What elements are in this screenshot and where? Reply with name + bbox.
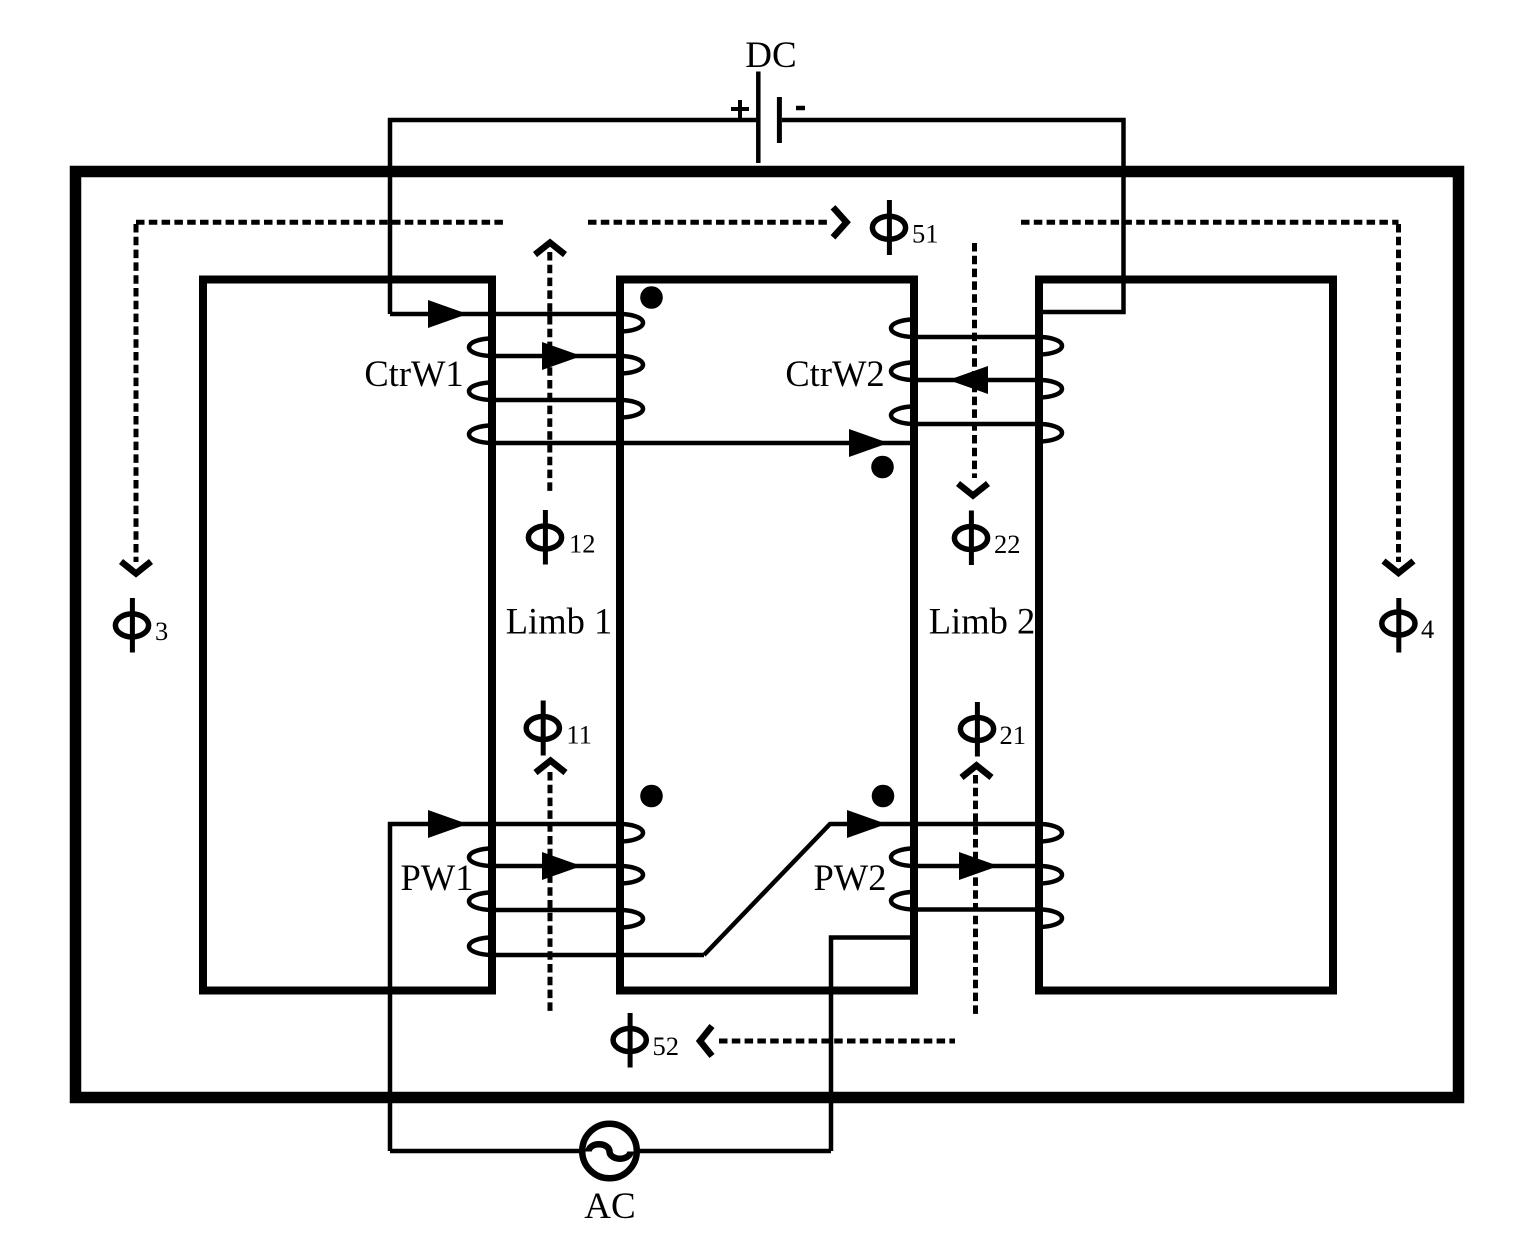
label phi3 [115, 598, 168, 653]
polarity dot CtrW2 [871, 456, 894, 479]
svg-text:3: 3 [155, 616, 168, 646]
coil PW1 turn wire 3 [490, 908, 620, 913]
current arrow into PW2 [847, 810, 887, 838]
coil CtrW1 left arcs [469, 339, 492, 444]
flux phi51 dashed line [588, 220, 827, 225]
coil CtrW1 turn wire 3 [490, 398, 620, 403]
flux phi51 arrowhead [833, 207, 847, 237]
coil CtrW2 turn wire 1 [914, 335, 1039, 340]
flux phi21 dashed line [973, 775, 978, 1017]
svg-text:Limb 1: Limb 1 [506, 601, 612, 642]
svg-text:22: 22 [994, 529, 1021, 559]
coil PW1 turn wire 4 [490, 953, 704, 958]
current arrow on PW1 wire 2 [542, 852, 582, 880]
wire DC right to CtrW2 [782, 120, 1124, 312]
label phi51 [872, 200, 938, 255]
current arrow into PW1 [428, 810, 468, 838]
label phi4 [1382, 598, 1434, 653]
AC source circle [582, 1124, 637, 1179]
wire CtrW1 to CtrW2 [490, 441, 913, 446]
coil CtrW1 right arcs [620, 314, 643, 418]
wire AC bottom right [637, 1149, 832, 1154]
svg-text:CtrW1: CtrW1 [364, 353, 463, 394]
label phi12 [528, 510, 595, 565]
battery DC short plate - [777, 97, 782, 143]
polarity dot CtrW1 [640, 286, 663, 309]
core window right [1039, 280, 1333, 991]
battery plus sign [731, 100, 749, 118]
polarity dot PW2 [872, 785, 895, 808]
svg-text:21: 21 [1000, 720, 1027, 750]
coil PW1 turn wire 2 [490, 864, 620, 869]
coil CtrW2 turn wire 3 [914, 422, 1039, 427]
current arrow on PW2 wire 2 [959, 852, 999, 880]
svg-text:DC: DC [745, 35, 796, 76]
wire PW1 to PW2 diagonal [704, 824, 1039, 955]
current arrow on CtrW1 wire 2 [542, 342, 582, 370]
coil CtrW2 turn wire 2 [914, 378, 1039, 383]
flux phi4 dashed path [1021, 222, 1399, 562]
svg-text:PW2: PW2 [814, 857, 887, 898]
coil PW1 left arcs [469, 849, 492, 956]
svg-text:AC: AC [584, 1186, 635, 1227]
svg-text:CtrW2: CtrW2 [785, 353, 884, 394]
polarity dot PW1 [640, 785, 663, 808]
flux phi3 dashed path [136, 222, 507, 562]
svg-text:Limb 2: Limb 2 [929, 601, 1035, 642]
flux phi4 arrowhead [1384, 561, 1414, 573]
coil CtrW1 turn wire 1 [390, 312, 620, 317]
wire DC left to CtrW1 [390, 120, 756, 314]
current arrow into CtrW2 lower [849, 429, 889, 457]
battery DC long plate + [756, 72, 761, 164]
flux phi22 arrowhead [958, 484, 988, 496]
battery minus sign [796, 106, 805, 111]
svg-text:12: 12 [569, 529, 596, 559]
AC source sine wave [589, 1144, 631, 1159]
coil PW2 right arcs [1039, 824, 1062, 927]
label phi11 [526, 701, 592, 756]
core window left [203, 280, 492, 991]
wire AC bottom left [390, 1149, 583, 1154]
svg-text:51: 51 [912, 219, 939, 249]
current arrow into CtrW1 [428, 300, 468, 328]
coil CtrW1 turn wire 2 [490, 354, 620, 359]
svg-text:11: 11 [566, 720, 592, 750]
wire PW2 out to AC [831, 938, 914, 1152]
core outer outline [76, 172, 1459, 1098]
coil CtrW2 left arcs [891, 320, 914, 425]
flux phi22 dashed line [972, 243, 977, 478]
flux phi52 arrowhead [700, 1026, 712, 1056]
coil PW1 right arcs [620, 824, 643, 928]
coil CtrW2 right arcs [1039, 337, 1062, 442]
flux phi3 arrowhead [121, 562, 151, 574]
label phi52 [613, 1013, 679, 1068]
flux phi12 arrowhead [535, 243, 565, 255]
current arrow on CtrW2 wire 2 [949, 366, 989, 394]
coil PW2 turn wire 2 [914, 864, 1039, 869]
label phi21 [960, 702, 1026, 757]
wire AC left to PW1 [390, 824, 620, 1151]
flux phi11 dashed line [548, 772, 553, 1011]
svg-text:PW1: PW1 [401, 857, 474, 898]
coil PW2 turn wire 3 [914, 907, 1039, 912]
coil PW2 left arcs [891, 849, 914, 910]
svg-text:52: 52 [653, 1031, 680, 1061]
flux phi11 arrowhead [536, 761, 566, 773]
core window center [620, 280, 914, 991]
flux phi21 arrowhead [962, 765, 992, 777]
label phi22 [954, 511, 1020, 566]
flux phi12 dashed line [547, 252, 552, 495]
flux phi52 dashed line [719, 1039, 955, 1044]
svg-text:4: 4 [1421, 614, 1434, 644]
